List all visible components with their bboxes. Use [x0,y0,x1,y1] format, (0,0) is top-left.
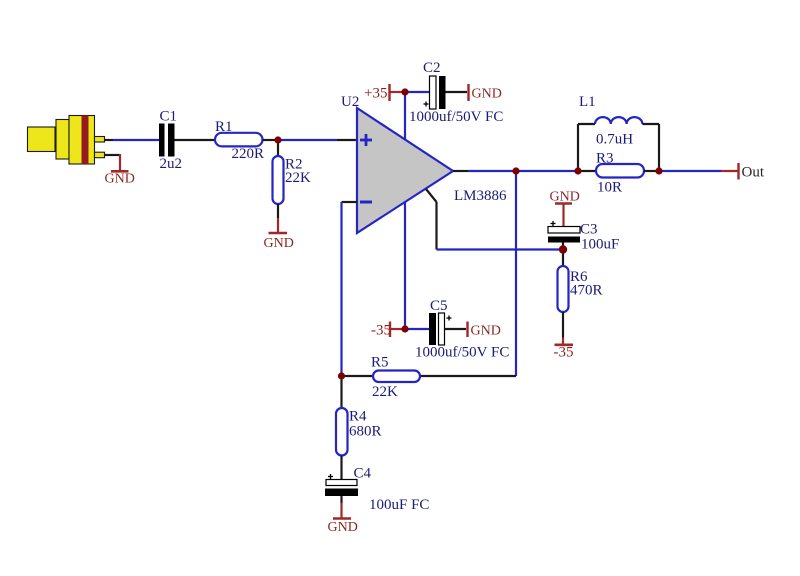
svg-text:0.7uH: 0.7uH [596,132,633,148]
wire R4 to C4 [340,456,342,480]
wire node G to C5 [405,328,429,330]
svg-text:GND: GND [264,236,294,251]
capacitor C5 polarized [415,298,509,361]
capacitor C1 [159,109,182,173]
resistor R3 [596,151,644,196]
node G junction -35/C5 [401,325,408,332]
resistor R4 [336,408,382,456]
wire op-amp minus input [342,202,358,376]
svg-text:GND: GND [472,87,502,102]
node D junction L1 left [574,167,581,174]
svg-text:C3: C3 [580,222,598,238]
ground GND at C2 [469,84,502,102]
svg-text:GND: GND [328,520,358,535]
node B junction +35/C2 [401,88,408,95]
svg-text:U2: U2 [341,94,359,110]
wire node C to node D [516,170,578,172]
svg-text:GND: GND [471,324,501,339]
power +35 port [364,84,405,102]
svg-text:100uF FC: 100uF FC [369,497,429,513]
wire R6 to -35 [562,312,564,338]
wire op-amp mute pin to node E [426,189,563,250]
capacitor C4 polarized [325,466,429,514]
resistor R1 [215,119,264,162]
svg-text:1000uf/50V FC: 1000uf/50V FC [409,109,503,125]
svg-text:-35: -35 [554,345,574,361]
svg-text:1000uf/50V FC: 1000uf/50V FC [415,345,509,361]
wire node H down to R4 [340,376,342,408]
wire op-amp V- pin down [404,202,406,329]
wire C1 to R1 [175,139,216,141]
wire R1 to node A [263,139,279,141]
resistor R5 [371,355,420,401]
wire C3 bottom to node E to R6 [562,243,564,267]
node C output junction [512,167,519,174]
svg-text:C5: C5 [430,298,448,314]
resistor R6 [558,266,603,312]
node A junction [274,136,281,143]
svg-text:L1: L1 [579,94,596,110]
ground GND at RCA [105,154,135,187]
wire R3 to node F [644,170,659,172]
svg-text:10R: 10R [597,180,622,196]
svg-text:C1: C1 [160,109,178,125]
wire node B to C2 [405,91,429,93]
svg-text:R3: R3 [596,151,614,167]
wire op-amp V+ pin to +35 node [404,92,406,139]
node E junction C3/R6/mute [559,245,567,253]
wire node A down to R2 [277,140,279,156]
wire node H to R5 [342,375,374,377]
power -35 port at C5 [371,322,405,339]
capacitor C3 polarized [548,221,619,253]
connector J1 RCA input [28,116,105,165]
svg-text:+35: +35 [364,86,387,102]
svg-text:100uF: 100uF [581,237,619,253]
svg-text:R4: R4 [349,409,367,425]
svg-text:22K: 22K [285,170,311,186]
ground GND at C5 [468,322,501,339]
svg-text:-35: -35 [371,323,391,339]
wire node D to R3 [578,170,596,172]
svg-text:C4: C4 [354,466,372,482]
svg-text:R5: R5 [371,355,389,371]
svg-text:R1: R1 [215,119,233,135]
svg-text:470R: 470R [570,283,603,299]
svg-text:22K: 22K [372,384,398,400]
wire R2 to ground [277,204,279,218]
node F junction L1/R3 right [655,167,662,174]
svg-text:LM3886: LM3886 [454,188,507,204]
svg-text:Out: Out [742,165,765,181]
power -35 below R6 [554,338,574,361]
resistor R2 [273,156,312,204]
svg-text:C2: C2 [423,60,441,76]
op-amp U2 LM3886 [341,94,507,233]
svg-text:GND: GND [105,172,135,187]
inductor L1 [578,94,659,171]
wire RCA top pin to C1 [105,139,160,141]
port Out [739,163,765,181]
capacitor C2 polarized [409,60,503,125]
svg-text:2u2: 2u2 [160,156,183,172]
wire C5 to ground [445,328,467,330]
wire feedback from node C down to R5 [420,171,516,376]
wire C2 to ground [446,91,468,93]
ground GND below R2 [264,218,294,251]
wire op-amp output pin [453,170,516,172]
ground GND below C4 [328,519,358,536]
wire C4 to ground [340,496,342,518]
wire node A to op-amp plus input [278,139,357,141]
ground GND above C3 [550,190,580,227]
wire RCA bottom pin to ground [105,154,121,156]
node H junction R5/R4/minus [338,372,345,379]
wire node F to Out port [659,170,738,172]
svg-text:220R: 220R [232,146,265,162]
svg-text:680R: 680R [349,424,382,440]
